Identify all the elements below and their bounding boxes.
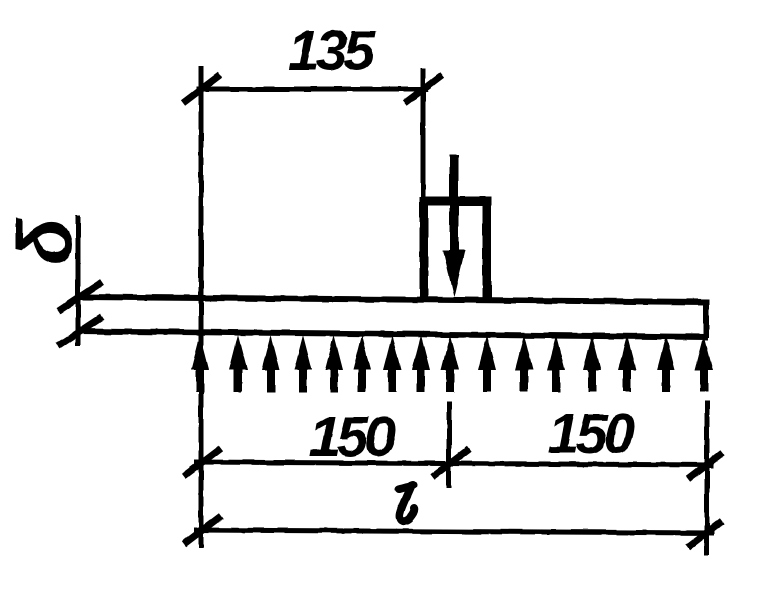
dimension line 150-150 <box>194 462 714 465</box>
load arrow q11 <box>515 335 533 392</box>
tick 135 left <box>183 75 220 103</box>
tick dim150 middle <box>432 449 469 477</box>
svg-text:135: 135 <box>288 19 376 83</box>
load arrow q5 <box>325 335 343 392</box>
load arrow q7 <box>383 335 401 392</box>
beam bottom edge <box>78 331 708 337</box>
dimension line l <box>194 530 714 533</box>
extension line left <box>199 66 204 548</box>
delta dimension tick top <box>58 282 102 311</box>
delta dimension tick bottom <box>58 317 102 346</box>
force arrow shaft <box>450 155 459 262</box>
load arrow q8 <box>412 335 430 392</box>
load arrow q16 <box>695 335 713 392</box>
load arrow q9 <box>441 335 459 392</box>
load arrow q15 <box>657 335 675 392</box>
load arrow q12 <box>547 335 565 392</box>
delta dimension line <box>76 215 81 346</box>
load arrow q14 <box>618 335 636 392</box>
load arrow q10 <box>478 335 496 392</box>
beam right edge <box>703 299 709 338</box>
load arrow q2 <box>229 335 247 392</box>
dimension line 135 <box>196 87 428 92</box>
load bracket <box>424 201 487 300</box>
tick 135 right <box>405 75 442 103</box>
force arrow head <box>443 250 465 297</box>
label l (script ell) <box>399 485 414 521</box>
load arrow q13 <box>583 335 601 392</box>
tick dim150 right <box>688 453 722 479</box>
middle extension line <box>447 402 452 488</box>
svg-text:150: 150 <box>548 402 635 466</box>
extension line at load <box>421 68 426 200</box>
load arrow q6 <box>353 335 371 392</box>
tick dim150 left <box>184 448 221 476</box>
svg-text:150: 150 <box>309 405 396 469</box>
beam top edge <box>78 297 708 302</box>
tick dim-l right <box>688 521 722 547</box>
load arrow q4 <box>294 335 312 392</box>
tick dim-l left <box>184 516 221 544</box>
svg-text:δ: δ <box>3 217 89 265</box>
load arrow q1 <box>191 335 209 392</box>
load arrow q3 <box>262 335 280 392</box>
right extension line <box>705 401 710 556</box>
